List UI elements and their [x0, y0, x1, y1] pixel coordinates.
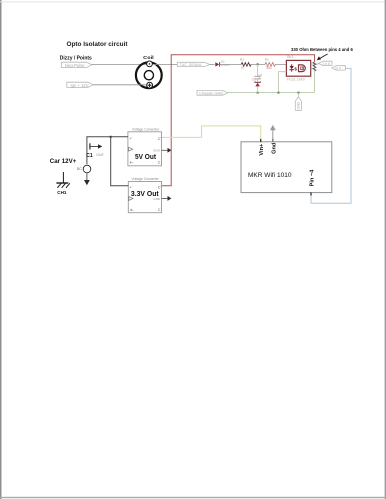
svg-text:1k: 1k: [241, 66, 245, 70]
opto U1 schmitt gate symbol: [299, 65, 306, 72]
wire rail to 3.3V plus: [111, 137, 129, 186]
svg-text:1n: 1n: [258, 75, 262, 79]
MKR Wifi 1010 module box: [241, 142, 332, 193]
capacitor C1: [90, 143, 102, 149]
voltage converter U3 3.3V box: [128, 182, 161, 213]
stub junction to C4: [257, 64, 259, 76]
svg-text:Coil: Coil: [143, 55, 154, 61]
resistor R1: [265, 63, 275, 67]
junction node cathode: [277, 92, 279, 94]
net flag pin4: [332, 66, 346, 70]
capacitor C4: [254, 76, 261, 79]
zener diode D1: [255, 81, 260, 86]
svg-text:Ign + 12V: Ign + 12V: [71, 83, 89, 88]
blue wire pin4 to MKR Pin ~4: [311, 68, 351, 203]
junction node zener: [257, 92, 259, 94]
svg-text:330: 330: [266, 66, 272, 70]
wire 12V top rail: [87, 137, 128, 165]
resistor R3 330 between pins 4 and 6: [313, 62, 316, 71]
svg-text:Car 12V+: Car 12V+: [50, 158, 77, 165]
svg-text:330 Ohm Between pins 4 and 6: 330 Ohm Between pins 4 and 6: [291, 47, 353, 52]
net flag pin6: [319, 61, 332, 65]
svg-text:C: C: [158, 208, 161, 212]
yellow wire 5V to Vin+: [162, 126, 261, 139]
svg-text:Opto Isolator circuit: Opto Isolator circuit: [67, 41, 129, 48]
svg-text:D 4: D 4: [336, 66, 341, 70]
wire Neg-Pulse to coil: [92, 63, 147, 65]
wire DC source to arrow: [86, 173, 88, 181]
svg-text:MKR Wifi 1010: MKR Wifi 1010: [248, 172, 292, 179]
svg-text:GND: GND: [297, 102, 301, 110]
net flag Neg-Pulse: [61, 62, 92, 67]
svg-text:TAC_SIGNAL: TAC_SIGNAL: [180, 63, 202, 67]
svg-text:DC: DC: [77, 167, 82, 171]
wire R3 bottom to green bus: [314, 71, 316, 93]
pin stub Vin+: [260, 139, 262, 142]
ground arrow above MKR Gnd: [270, 125, 276, 142]
wire U1 pin4 stub: [311, 67, 315, 69]
svg-text:Chassis GND: Chassis GND: [199, 91, 223, 96]
wire U1 pin6 to flag: [311, 63, 319, 65]
junction node gnd flag: [297, 92, 299, 94]
svg-text:+ʹ: +ʹ: [130, 185, 133, 189]
svg-text:GND: GND: [153, 149, 161, 153]
pin stub Gnd: [272, 139, 274, 142]
svg-text:+ʹ: +ʹ: [129, 137, 132, 141]
opto U1 internal LED: [290, 64, 294, 72]
svg-text:$: $: [294, 66, 297, 71]
red wire net 3.3V: left vertical, top run, drop to R3: [162, 55, 315, 186]
GND arrow (5V): [162, 148, 172, 153]
svg-text:Gnd: Gnd: [271, 142, 277, 154]
wire D2 to R2: [220, 63, 242, 65]
DC source V1: [83, 165, 91, 173]
svg-text:R1: R1: [265, 58, 269, 62]
svg-text:∗ₒ: ∗ₒ: [130, 208, 135, 212]
svg-text:Vin+: Vin+: [259, 143, 265, 156]
svg-text:Cʹ: Cʹ: [158, 185, 162, 189]
svg-text:CH1: CH1: [57, 190, 67, 196]
svg-text:Voltage Converter: Voltage Converter: [132, 128, 160, 132]
voltage converter U2 5V box: [128, 132, 162, 166]
junction node 12V rail: [110, 136, 112, 138]
svg-text:10uF: 10uF: [96, 153, 104, 157]
svg-text:D1: D1: [252, 77, 256, 81]
net flag TACH PULSE: [177, 62, 210, 66]
svg-text:OK1: OK1: [287, 55, 294, 59]
svg-text:C1: C1: [86, 153, 93, 159]
diode D2: [215, 62, 219, 66]
svg-text:H11L1M6: H11L1M6: [287, 77, 305, 81]
svg-text:Pin ~4: Pin ~4: [309, 169, 315, 187]
svg-text:Neg-Pulse: Neg-Pulse: [65, 63, 85, 68]
wire TACH flag to D2: [210, 63, 215, 65]
coil T1 symbol: [136, 61, 162, 88]
svg-text:Voltage Converter: Voltage Converter: [132, 177, 160, 181]
svg-text:R2: R2: [240, 58, 244, 62]
ground CH1 symbol: [56, 172, 69, 188]
pin triangle (5V): [129, 147, 133, 151]
annotation arrow: [317, 54, 328, 60]
svg-text:Cʹ: Cʹ: [158, 137, 162, 141]
svg-text:5V Out: 5V Out: [135, 152, 156, 161]
pin stub Pin ~4: [310, 192, 312, 195]
ground arrow below DC source: [84, 180, 90, 185]
wire C4 to zener: [257, 79, 259, 82]
net flag GND vertical: [297, 93, 299, 97]
wire U1 pin2 cathode loop (left-bottom): [278, 72, 286, 92]
svg-text:Dizzy / Points: Dizzy / Points: [60, 55, 92, 61]
GND arrow (3.3V): [162, 196, 172, 201]
wire R1 to opto U1 pin1: [275, 63, 286, 65]
wire Ign+12V to coil plus terminal: [93, 84, 146, 86]
wire coil to TACH flag: [152, 63, 177, 65]
wire R2 to junction to R1: [251, 63, 265, 65]
wire zener to bus: [257, 86, 259, 92]
opto-isolator U1 box: [286, 60, 310, 76]
junction node: [257, 63, 259, 65]
pin triangle (3.3V): [129, 197, 133, 201]
svg-text:1N4007: 1N4007: [221, 63, 231, 67]
svg-text:GND: GND: [153, 197, 161, 201]
green GND bus: [228, 92, 315, 94]
svg-text:∗ₒ: ∗ₒ: [129, 160, 134, 164]
net flag Chassis GND: [197, 91, 228, 96]
svg-text:C: C: [158, 160, 161, 164]
net flag Ign + 12V: [67, 82, 94, 87]
resistor R2: [241, 63, 251, 67]
svg-text:1 k 6: 1 k 6: [323, 62, 330, 66]
